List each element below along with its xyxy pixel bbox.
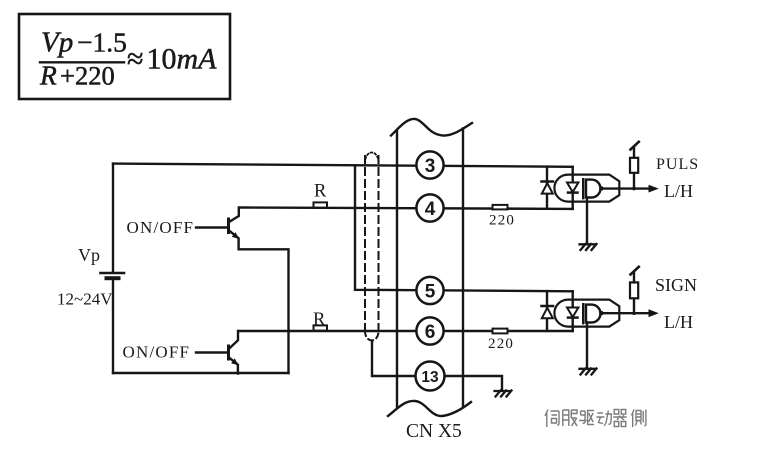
- opto U2 LED cathode bar: [568, 316, 578, 319]
- pull-up resistor (PULS) lead top: [633, 148, 635, 158]
- diode D2 triangle: [542, 308, 553, 318]
- connector CN X5 left edge: [396, 131, 398, 407]
- pull-up resistor (SIGN) lead bottom: [633, 298, 635, 313]
- supply tick (PULS): [631, 142, 639, 150]
- wire: Q1 collector row to pin 4 and LED1 cathode: [239, 208, 573, 209]
- resistor 220 (SIGN) body: [493, 329, 508, 334]
- wire: battery top lead: [112, 164, 114, 272]
- junction dot U2 output: [632, 311, 636, 315]
- ground at pin 13: [495, 391, 512, 397]
- resistor 220 (PULS) body: [493, 205, 508, 210]
- junction dot U1 output: [632, 187, 636, 191]
- opto U2 LED triangle: [567, 308, 578, 318]
- opto U1 LED lead down: [572, 167, 574, 183]
- svg-text:6: 6: [425, 322, 436, 343]
- svg-text:ON/OFF: ON/OFF: [127, 218, 195, 237]
- svg-text:L/H: L/H: [664, 181, 693, 201]
- formula box frame: [19, 14, 230, 99]
- svg-text:5: 5: [425, 281, 436, 302]
- wire: bottom emitter rail: [113, 372, 289, 374]
- char 动: [596, 411, 611, 426]
- pin 3 circle: [416, 151, 443, 178]
- char 伺: [545, 410, 559, 428]
- connector top break wavy line: [391, 119, 472, 136]
- shield left dashed line: [364, 156, 366, 333]
- pull-up resistor (SIGN) body: [630, 282, 638, 298]
- svg-text:R: R: [314, 182, 327, 202]
- wire: battery bottom lead: [112, 280, 114, 373]
- svg-text:+220: +220: [60, 61, 115, 91]
- diode D1 cathode bar: [542, 180, 554, 183]
- char 侧: [632, 410, 646, 428]
- svg-text:13: 13: [421, 369, 439, 386]
- diode D2 lead: [546, 291, 548, 331]
- svg-text:Vp: Vp: [41, 27, 73, 59]
- diode D2 cathode bar: [542, 305, 554, 308]
- wire: U1 output: [601, 187, 650, 189]
- formula fraction bar: [40, 61, 124, 63]
- battery Vp long plate: [101, 272, 125, 275]
- svg-text:SIGN: SIGN: [655, 275, 697, 295]
- arrow U1 output: [649, 185, 659, 193]
- label servo driver side (CJK drawn strokes): [545, 410, 646, 428]
- opto U2 LED lead to bottom row: [572, 318, 574, 331]
- pin 6 circle: [416, 317, 443, 344]
- transistor Q2 base wire: [196, 351, 227, 353]
- shield bottom dashed arc: [365, 331, 379, 340]
- svg-text:PULS: PULS: [656, 156, 699, 173]
- opto U2 detector D shape: [586, 305, 600, 323]
- char 服: [563, 410, 577, 426]
- wire: junction drop to pin 5 row: [355, 165, 573, 291]
- transistor Q1 base bar: [227, 219, 230, 233]
- opto U1 LED cathode bar: [568, 191, 578, 194]
- opto U2 detector base line: [582, 304, 584, 323]
- svg-text:L/H: L/H: [664, 312, 693, 332]
- svg-text:220: 220: [488, 336, 514, 352]
- transistor Q2 emitter arrow: [231, 358, 238, 365]
- ground under U2: [580, 369, 597, 375]
- char 器: [613, 410, 627, 427]
- shield top dotted arc: [365, 153, 379, 164]
- resistor R1 bump: [314, 202, 328, 207]
- opto U1 detector base line: [582, 179, 584, 198]
- opto U2 output dot: [599, 311, 603, 315]
- pull-up resistor (SIGN) lead top: [633, 273, 635, 283]
- supply tick (SIGN): [631, 267, 639, 275]
- svg-text:220: 220: [489, 213, 515, 229]
- opto U1 LED triangle: [567, 183, 578, 193]
- transistor Q2 emitter: [229, 358, 238, 374]
- wire: shield drain to pin 13: [372, 341, 416, 376]
- svg-text:3: 3: [425, 156, 436, 177]
- wire: U2 emitter to ground: [586, 323, 588, 369]
- connector CN X5 right edge: [462, 129, 464, 407]
- svg-text:12~24V: 12~24V: [57, 290, 113, 309]
- wire: top rail from battery + to pin 3 and LED1 anode: [113, 164, 573, 167]
- svg-text:ON/OFF: ON/OFF: [123, 343, 191, 362]
- svg-text:4: 4: [425, 199, 436, 220]
- opto U1 package: [554, 175, 619, 202]
- transistor Q1 base wire: [196, 226, 227, 228]
- arrow U2 output: [649, 309, 659, 317]
- transistor Q1 emitter arrow: [232, 232, 239, 239]
- wire: U2 output: [601, 312, 650, 314]
- opto U1 output dot: [599, 186, 603, 190]
- opto U1 detector D shape: [586, 180, 600, 198]
- opto U2 package: [554, 300, 619, 327]
- pin 13 circle: [416, 362, 445, 391]
- pull-up resistor (PULS) body: [630, 158, 638, 173]
- diode D1 lead: [546, 167, 548, 209]
- transistor Q1 emitter: [229, 231, 288, 373]
- resistor R2 bump: [314, 325, 328, 330]
- transistor Q1 collector: [229, 208, 239, 222]
- svg-text:R: R: [313, 310, 326, 330]
- svg-text:≈10mA: ≈10mA: [127, 43, 217, 76]
- wire: U1 emitter to ground: [586, 198, 588, 244]
- svg-text:Vp: Vp: [78, 245, 100, 265]
- transistor Q2 collector: [229, 331, 238, 349]
- svg-text:R: R: [39, 60, 57, 91]
- opto U2 LED lead down: [572, 291, 574, 307]
- svg-text:−1.5: −1.5: [77, 27, 127, 58]
- pin 4 circle: [416, 194, 443, 221]
- shield right dashed line: [378, 156, 380, 333]
- pin 5 circle: [416, 277, 443, 304]
- ground under U1: [580, 244, 597, 250]
- svg-text:CN X5: CN X5: [406, 421, 462, 442]
- opto U1 LED lead to bottom row: [572, 193, 574, 209]
- battery Vp short plate: [107, 276, 119, 280]
- pull-up resistor (PULS) lead bottom: [633, 173, 635, 189]
- connector bottom break wavy line: [388, 401, 471, 416]
- wire: Q2 collector row to pin 6 and LED2 cathode: [239, 330, 573, 332]
- char 驱: [579, 411, 594, 425]
- transistor Q2 base bar: [227, 346, 230, 359]
- diode D1 triangle: [542, 183, 553, 193]
- wire: pin 13 row to ground: [444, 376, 502, 390]
